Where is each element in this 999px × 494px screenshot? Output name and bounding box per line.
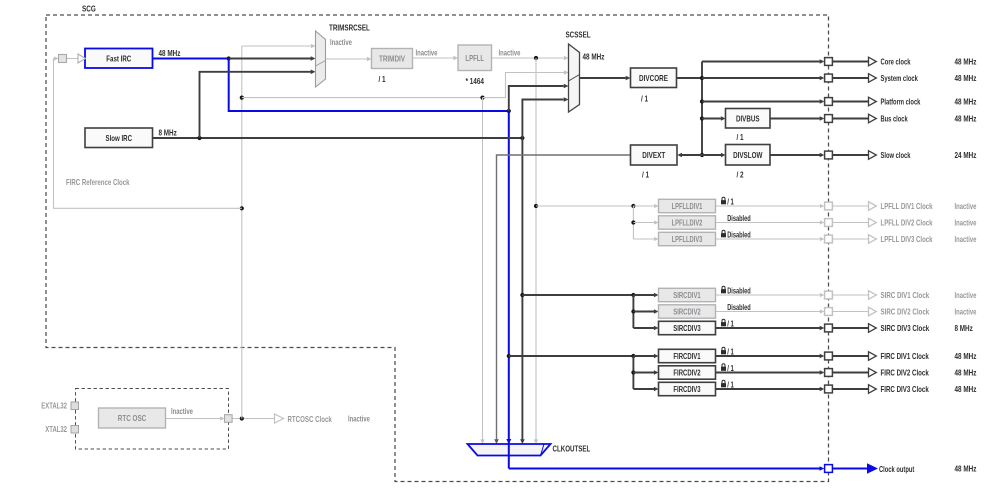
svg-text:FIRC DIV3 Clock: FIRC DIV3 Clock — [881, 384, 930, 394]
svg-text:LPFLL DIV2 Clock: LPFLL DIV2 Clock — [881, 218, 933, 228]
block Fast IRC — [85, 49, 153, 69]
port RTCOSC Clock triangle — [275, 414, 284, 423]
svg-text:TRIMDIV: TRIMDIV — [379, 54, 405, 64]
block DIVEXT — [631, 145, 678, 165]
node SOSC junction — [480, 96, 484, 100]
port square Clock output — [825, 465, 833, 473]
svg-text:/ 1: / 1 — [727, 320, 734, 329]
node SIRC div branch — [520, 293, 524, 297]
wire FIRC reference loop — [54, 59, 242, 209]
svg-text:Core clock: Core clock — [881, 57, 911, 67]
port square before Fast IRC — [59, 55, 67, 63]
svg-text:FIRC Reference Clock: FIRC Reference Clock — [66, 177, 130, 187]
svg-text:DIVSLOW: DIVSLOW — [733, 150, 762, 160]
svg-text:48 MHz: 48 MHz — [159, 48, 181, 58]
port square SIRC DIV3 Clock — [825, 324, 833, 332]
svg-text:SIRC DIV2 Clock: SIRC DIV2 Clock — [881, 307, 930, 317]
node RTCOSC at FIRC ref — [240, 206, 244, 210]
label LPFLLDIV1 value — [721, 197, 726, 204]
wire SIRC to CLKOUTSEL — [521, 138, 523, 440]
svg-text:SIRCDIV1: SIRCDIV1 — [673, 291, 701, 300]
svg-text:LPFLL DIV3 Clock: LPFLL DIV3 Clock — [881, 234, 933, 244]
svg-text:Clock output: Clock output — [879, 464, 914, 474]
svg-text:Inactive: Inactive — [416, 47, 438, 57]
buffer triangle Fast IRC input — [78, 54, 86, 63]
port triangle LPFLL DIV3 Clock — [869, 235, 877, 244]
svg-text:48 MHz: 48 MHz — [955, 351, 977, 361]
port triangle Slow clock — [869, 151, 877, 160]
node LPFLL junction — [534, 56, 538, 60]
port triangle SIRC DIV1 Clock — [869, 291, 877, 300]
wire to DIVBUS — [702, 118, 721, 120]
block FIRCDIV2 — [659, 366, 716, 379]
wire SCSSEL output — [580, 77, 626, 79]
svg-text:8 MHz: 8 MHz — [159, 128, 177, 138]
svg-text:/ 1: / 1 — [727, 364, 734, 373]
wire LPFLL DIV1 Clock tail — [833, 205, 869, 207]
svg-text:Inactive: Inactive — [348, 414, 370, 424]
wire into Fast IRC buffer — [67, 58, 79, 60]
svg-text:FIRC DIV2 Clock: FIRC DIV2 Clock — [881, 368, 930, 378]
port square System clock — [825, 74, 833, 82]
svg-text:/ 1: / 1 — [727, 198, 734, 207]
svg-text:SCG: SCG — [82, 4, 96, 14]
wire LPFLL DIV3 Clock tail — [833, 238, 869, 240]
wire SIRC to SCSSEL — [522, 100, 563, 139]
svg-text:SIRC DIV1 Clock: SIRC DIV1 Clock — [881, 290, 930, 300]
port square after RTC OSC — [225, 415, 233, 423]
wire SIRC to TRIMSRCSEL — [200, 72, 312, 138]
wire to DIVEXT — [682, 154, 702, 156]
wire SIRC output — [153, 137, 523, 139]
svg-text:Inactive: Inactive — [955, 234, 977, 244]
wire LPFLL output — [492, 57, 565, 59]
svg-text:TRIMSRCSEL: TRIMSRCSEL — [329, 23, 370, 33]
wire LPFLL DIV2 Clock tail — [833, 222, 869, 224]
port square LPFLL DIV1 Clock — [825, 202, 833, 210]
wire system clock — [702, 77, 820, 79]
wire FIRC DIV1 out — [715, 355, 821, 357]
block SIRCDIV1 — [659, 288, 716, 301]
label FIRCDIV2 value — [721, 364, 726, 371]
svg-text:48 MHz: 48 MHz — [955, 97, 977, 107]
port triangle Bus clock — [869, 114, 877, 123]
svg-text:DIVEXT: DIVEXT — [642, 150, 665, 160]
port triangle SIRC DIV3 Clock — [869, 324, 877, 333]
svg-text:System clock: System clock — [881, 73, 919, 83]
wire SIRC DIV2 out — [715, 311, 821, 313]
svg-text:* 1464: * 1464 — [466, 76, 485, 86]
port square SIRC DIV1 Clock — [825, 291, 833, 299]
wire FIRC to SCSSEL — [509, 86, 564, 111]
node platform junction — [700, 99, 704, 103]
node FIRC junction 1 — [227, 56, 231, 60]
wire SIRC DIV2 Clock tail — [833, 311, 869, 313]
svg-text:/ 2: / 2 — [737, 170, 744, 180]
wire platform clock — [702, 101, 820, 103]
port triangle LPFLL DIV2 Clock — [869, 218, 877, 227]
wire Bus clock tail — [833, 118, 869, 120]
node RTCOSC junction — [240, 416, 244, 420]
port triangle FIRC DIV3 Clock — [869, 385, 877, 394]
wire Platform clock tail — [833, 101, 869, 103]
port triangle Core clock — [869, 57, 877, 66]
wire FIRC DIV1 Clock tail — [833, 355, 869, 357]
svg-text:Inactive: Inactive — [955, 290, 977, 300]
svg-text:LPFLL: LPFLL — [465, 53, 484, 63]
svg-text:CLKOUTSEL: CLKOUTSEL — [553, 444, 591, 454]
port triangle LPFLL DIV1 Clock — [869, 202, 877, 211]
svg-text:LPFLLDIV3: LPFLLDIV3 — [672, 235, 703, 244]
wire core clock — [702, 61, 820, 63]
port square FIRC DIV2 Clock — [825, 369, 833, 377]
svg-text:/ 1: / 1 — [641, 94, 648, 104]
wire SOSC to CLKOUTSEL — [482, 98, 484, 440]
svg-text:Fast IRC: Fast IRC — [106, 53, 131, 63]
wire RTCOSC riser — [241, 46, 243, 419]
wire LPFLL DIV2 out — [715, 222, 821, 224]
label FIRCDIV3 value — [721, 380, 726, 387]
svg-text:48 MHz: 48 MHz — [955, 73, 977, 83]
port triangle SIRC DIV2 Clock — [869, 307, 877, 316]
svg-text:Disabled: Disabled — [727, 231, 751, 240]
port triangle System clock — [869, 74, 877, 83]
svg-text:LPFLL DIV1 Clock: LPFLL DIV1 Clock — [881, 201, 933, 211]
svg-text:Disabled: Disabled — [727, 214, 751, 223]
svg-text:XTAL32: XTAL32 — [45, 425, 67, 434]
svg-text:Platform clock: Platform clock — [881, 97, 921, 107]
block LPFLLDIV3 — [659, 232, 716, 245]
svg-text:SIRC DIV3 Clock: SIRC DIV3 Clock — [881, 323, 930, 333]
svg-text:Disabled: Disabled — [727, 303, 751, 312]
label SIRCDIV1 value — [721, 286, 726, 293]
block DIVSLOW — [726, 145, 771, 166]
svg-text:LPFLLDIV1: LPFLLDIV1 — [672, 202, 703, 211]
svg-text:LPFLLDIV2: LPFLLDIV2 — [672, 219, 703, 228]
wire Slow clock tail — [833, 154, 869, 156]
wire FIRC output blue — [153, 58, 229, 60]
wire clock output blue — [509, 468, 820, 470]
wire slow clock — [770, 154, 820, 156]
wire LPFLL to dividers — [536, 205, 633, 207]
RTC region dashed border — [76, 389, 229, 450]
block Slow IRC — [85, 128, 153, 148]
wire Core clock tail — [833, 61, 869, 63]
svg-text:RTCOSC Clock: RTCOSC Clock — [288, 414, 333, 424]
svg-text:DIVCORE: DIVCORE — [639, 73, 668, 83]
wire SIRC DIV1 Clock tail — [833, 294, 869, 296]
wire FIRC blue elbow — [229, 59, 509, 112]
block SIRCDIV2 — [659, 305, 716, 318]
wire System clock tail — [833, 77, 869, 79]
node FIRC div branch — [507, 354, 511, 358]
svg-text:Bus clock: Bus clock — [881, 114, 908, 124]
port XTAL32 — [71, 426, 79, 434]
label SIRCDIV3 value — [721, 319, 726, 326]
port square LPFLL DIV3 Clock — [825, 235, 833, 243]
port triangle Clock output — [867, 463, 878, 474]
wire SIRC DIV3 Clock tail — [833, 327, 869, 329]
mux SCSSEL — [569, 44, 580, 112]
block LPFLLDIV1 — [659, 199, 716, 212]
svg-text:SCSSEL: SCSSEL — [566, 30, 591, 40]
block RTC OSC — [99, 408, 166, 428]
wire FIRC DIV3 Clock tail — [833, 388, 869, 390]
svg-text:/ 1: / 1 — [727, 381, 734, 390]
svg-text:FIRC DIV1 Clock: FIRC DIV1 Clock — [881, 351, 930, 361]
wire FIRC DIV3 out — [715, 388, 821, 390]
wire TRIMDIV to LPFLL — [413, 57, 454, 59]
wire TRIMSRCSEL output — [326, 58, 368, 60]
block LPFLLDIV2 — [659, 216, 716, 229]
wire FIRC blue trunk — [508, 111, 510, 469]
block SIRCDIV3 — [659, 321, 716, 334]
svg-text:DIVBUS: DIVBUS — [736, 113, 760, 123]
wire to DIVSLOW — [702, 154, 721, 156]
node RTCOSC at SOSC branch — [240, 96, 244, 100]
node FIRC junction 2 — [507, 109, 511, 113]
svg-text:Inactive: Inactive — [499, 47, 521, 57]
wire FIRC through CLKOUTSEL — [508, 444, 510, 456]
port square Core clock — [825, 58, 833, 66]
wire LPFLL DIV1 out — [715, 205, 821, 207]
svg-text:/ 1: / 1 — [642, 170, 649, 180]
port EXTAL32 — [71, 402, 79, 410]
svg-text:Inactive: Inactive — [171, 406, 193, 416]
svg-text:/ 1: / 1 — [727, 348, 734, 357]
port square Platform clock — [825, 98, 833, 106]
block FIRCDIV3 — [659, 382, 716, 395]
node SIRC junction 2 — [520, 136, 524, 140]
port triangle FIRC DIV2 Clock — [869, 368, 877, 377]
svg-text:FIRCDIV2: FIRCDIV2 — [673, 369, 701, 378]
port square SIRC DIV2 Clock — [825, 308, 833, 316]
svg-text:SIRCDIV2: SIRCDIV2 — [673, 308, 701, 317]
svg-text:48 MHz: 48 MHz — [955, 384, 977, 394]
svg-text:SIRCDIV3: SIRCDIV3 — [673, 324, 701, 333]
wire SOSC branch — [242, 97, 483, 99]
block DIVBUS — [726, 109, 771, 129]
svg-text:RTC OSC: RTC OSC — [118, 413, 147, 423]
port square LPFLL DIV2 Clock — [825, 219, 833, 227]
label FIRCDIV1 value — [721, 347, 726, 354]
port triangle FIRC DIV1 Clock — [869, 352, 877, 361]
wire system trunk — [701, 62, 703, 156]
wire FIRC DIV2 Clock tail — [833, 372, 869, 374]
wire SOSC to SCSSEL — [483, 73, 565, 98]
svg-text:Inactive: Inactive — [955, 307, 977, 317]
label LPFLLDIV3 value — [721, 230, 726, 237]
svg-text:48 MHz: 48 MHz — [955, 464, 977, 474]
wire LPFLL DIV3 out — [715, 238, 821, 240]
svg-text:/ 1: / 1 — [379, 74, 386, 84]
node system junction — [700, 76, 704, 80]
wire SIRC DIV3 out — [715, 327, 821, 329]
port square FIRC DIV3 Clock — [825, 385, 833, 393]
node bus junction — [700, 116, 704, 120]
block DIVCORE — [631, 68, 677, 88]
svg-text:Disabled: Disabled — [727, 287, 751, 296]
mux TRIMSRCSEL — [316, 31, 326, 87]
port square Slow clock — [825, 151, 833, 159]
svg-text:Inactive: Inactive — [955, 201, 977, 211]
svg-text:8 MHz: 8 MHz — [955, 323, 973, 333]
wire bus clock — [770, 118, 820, 120]
node slow junction — [700, 153, 704, 157]
svg-text:Inactive: Inactive — [330, 37, 352, 47]
wire SIRC DIV1 out — [715, 294, 821, 296]
mux CLKOUTSEL — [468, 444, 551, 456]
block TRIMDIV — [372, 49, 413, 69]
wire RTCOSC to TRIMSRCSEL — [242, 45, 312, 47]
wire RTCOSC to port — [232, 418, 275, 420]
svg-text:EXTAL32: EXTAL32 — [41, 402, 67, 411]
svg-text:48 MHz: 48 MHz — [955, 114, 977, 124]
port triangle Platform clock — [869, 97, 877, 106]
node SIRC junction 1 — [197, 136, 201, 140]
svg-text:48 MHz: 48 MHz — [955, 368, 977, 378]
svg-text:48 MHz: 48 MHz — [955, 57, 977, 67]
svg-text:FIRCDIV1: FIRCDIV1 — [673, 352, 701, 361]
wire SIRC to dividers — [522, 294, 633, 296]
node LPFLL div branch — [534, 204, 538, 208]
SCG region dashed border — [46, 15, 829, 482]
block LPFLL — [458, 45, 492, 71]
wire FIRC to dividers — [509, 355, 634, 357]
svg-text:/ 1: / 1 — [737, 132, 744, 142]
block FIRCDIV1 — [659, 349, 716, 362]
wire FIRC to TRIMSRCSEL — [229, 58, 311, 60]
svg-text:FIRCDIV3: FIRCDIV3 — [673, 385, 701, 394]
svg-text:Inactive: Inactive — [955, 218, 977, 228]
wire DIVEXT to CLKOUTSEL — [497, 155, 631, 440]
svg-text:Slow clock: Slow clock — [881, 150, 911, 160]
svg-text:Slow IRC: Slow IRC — [106, 133, 133, 143]
port square Bus clock — [825, 115, 833, 123]
svg-text:48 MHz: 48 MHz — [583, 51, 605, 61]
wire DIVCORE output — [677, 77, 703, 79]
port square FIRC DIV1 Clock — [825, 352, 833, 360]
wire FIRC DIV2 out — [715, 372, 821, 374]
svg-text:24 MHz: 24 MHz — [955, 150, 977, 160]
wire RTCOSC output — [166, 418, 222, 420]
wire LPFLL to CLKOUTSEL — [535, 58, 537, 440]
